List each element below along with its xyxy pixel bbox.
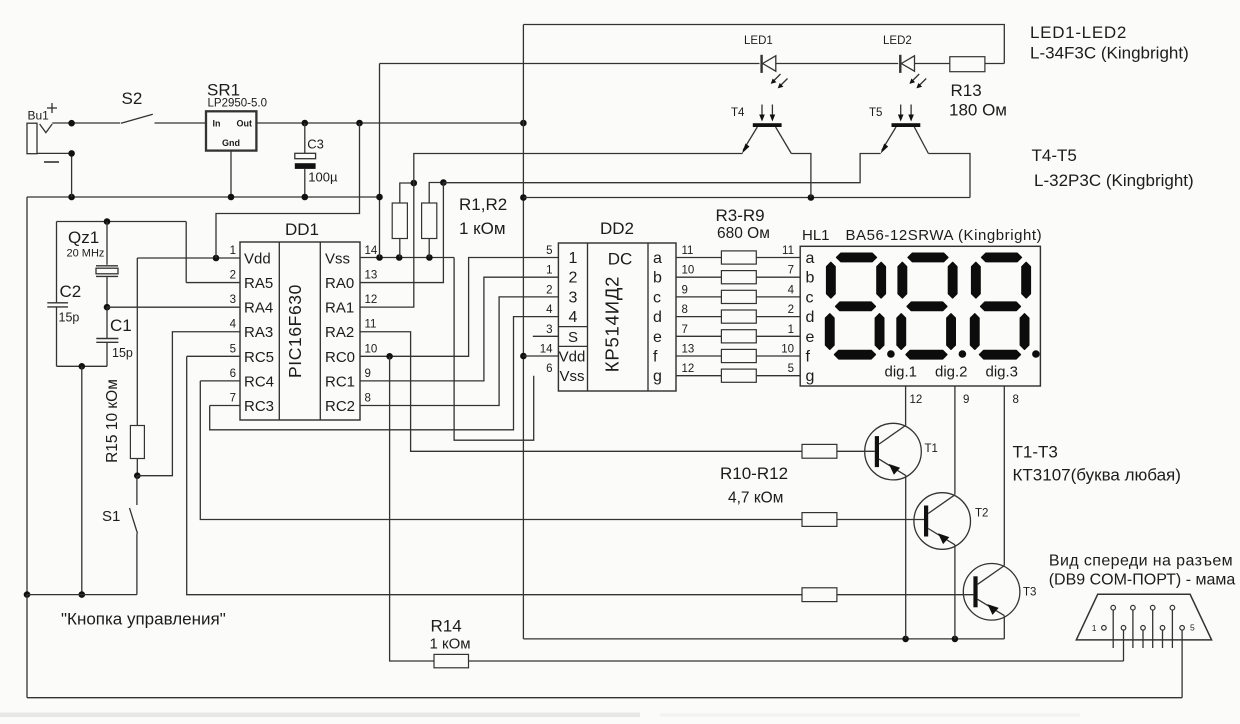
svg-text:Qz1: Qz1 <box>68 228 99 247</box>
wire RC3 to DD2 pin4 <box>210 317 559 430</box>
svg-text:13: 13 <box>365 270 378 282</box>
svg-text:R1,R2: R1,R2 <box>459 195 507 214</box>
svg-text:g: g <box>806 368 815 385</box>
wire top +5V line <box>523 25 1004 64</box>
svg-text:КР514ИД2: КР514ИД2 <box>602 276 623 373</box>
wire S1 ground line <box>27 594 137 596</box>
svg-text:dig.2: dig.2 <box>935 364 968 381</box>
svg-text:Вид спереди на разъем: Вид спереди на разъем <box>1049 553 1233 570</box>
svg-text:5: 5 <box>1190 623 1195 633</box>
resistors R3-R9 segment resistors <box>676 245 800 382</box>
label T4-T5 type <box>1032 146 1194 190</box>
svg-text:DD1: DD1 <box>285 220 319 239</box>
capacitor C3 100u <box>295 123 338 197</box>
svg-text:14: 14 <box>540 344 553 356</box>
svg-text:d: d <box>653 309 662 326</box>
svg-text:R14: R14 <box>431 617 462 636</box>
svg-text:LED2: LED2 <box>883 35 912 47</box>
diode LED1 <box>744 35 788 88</box>
diode LED2 <box>883 35 926 88</box>
wire DD2 Vdd stub <box>523 355 558 357</box>
wire HL1 dig.1 cathode <box>906 386 923 425</box>
label LED1-LED2 type <box>1030 23 1189 63</box>
wire RA0 to T5 emitter <box>360 154 881 283</box>
svg-text:c: c <box>653 289 661 306</box>
label R1,R2 value <box>459 195 507 238</box>
svg-text:100µ: 100µ <box>308 170 338 185</box>
wire T4 T5 collector rail <box>523 197 970 199</box>
junction dot C3 top <box>302 120 309 127</box>
svg-text:S1: S1 <box>102 508 120 525</box>
svg-text:S: S <box>568 329 578 346</box>
wire RA2 to R10 <box>360 332 802 452</box>
svg-text:"Кнопка управления": "Кнопка управления" <box>61 610 226 629</box>
svg-text:R3-R9: R3-R9 <box>716 206 765 225</box>
junction dot +5V DD2 Vdd <box>520 353 527 360</box>
connector Bu1 (power jack) <box>27 103 59 162</box>
svg-text:11: 11 <box>682 245 694 257</box>
svg-text:RC5: RC5 <box>244 349 274 366</box>
svg-text:11: 11 <box>365 319 377 331</box>
wire SR1 Gnd to ground rail <box>230 151 232 197</box>
wire RA4 line (crystal to pin3) <box>107 306 240 308</box>
wire RC5 to R12 <box>187 356 802 594</box>
svg-text:C1: C1 <box>110 316 132 335</box>
resistor R12 <box>802 588 973 602</box>
digit 1 segments <box>826 253 886 358</box>
svg-text:9: 9 <box>365 368 371 380</box>
svg-text:3: 3 <box>230 294 236 306</box>
crystal Qz1 <box>67 222 119 308</box>
wire crystal top net <box>57 222 187 303</box>
svg-text:20 MHz: 20 MHz <box>67 248 105 260</box>
svg-text:C2: C2 <box>60 282 82 301</box>
wire HL1 dig.3 cathode <box>1004 386 1019 566</box>
svg-text:Vss: Vss <box>559 368 584 385</box>
svg-text:RA4: RA4 <box>244 300 273 317</box>
svg-text:LED1: LED1 <box>744 35 773 47</box>
svg-text:T1-T3: T1-T3 <box>1013 443 1058 462</box>
svg-text:1: 1 <box>230 245 236 257</box>
junction dot +5V vertical <box>520 120 527 127</box>
svg-text:a: a <box>653 250 662 267</box>
svg-text:f: f <box>806 349 811 366</box>
svg-text:R13: R13 <box>951 81 982 100</box>
label button caption <box>61 610 226 629</box>
wire T4 collector <box>791 154 811 198</box>
wire T2 emitter down <box>954 545 956 639</box>
label R13 value <box>949 81 1007 120</box>
svg-text:e: e <box>653 329 662 346</box>
resistor R15 10k <box>104 258 144 476</box>
svg-text:3: 3 <box>569 289 578 306</box>
svg-text:T3: T3 <box>1023 587 1036 599</box>
capacitor C2 15p <box>47 282 81 366</box>
resistor R14 1k <box>434 654 1124 667</box>
junction dot Bu1 minus vertical on rail <box>68 194 75 201</box>
svg-text:LP2950-5.0: LP2950-5.0 <box>208 98 267 110</box>
wire S2 to SR1 In <box>155 122 207 124</box>
resistor R10 <box>802 444 875 458</box>
phototransistor T4 <box>731 105 791 154</box>
wire Vss pin14 line <box>360 257 454 259</box>
svg-text:8: 8 <box>682 304 688 316</box>
svg-text:9: 9 <box>963 394 969 406</box>
transistor T3 KT3107 <box>963 564 1036 621</box>
label R3-R9 value <box>716 206 770 242</box>
svg-text:L-32P3C (Kingbright): L-32P3C (Kingbright) <box>1034 171 1194 190</box>
svg-text:d: d <box>806 309 815 326</box>
svg-text:6: 6 <box>230 368 236 380</box>
wire RC3 stub <box>210 404 240 406</box>
label DB9 caption <box>1049 553 1236 589</box>
junction dot on plus wire <box>68 120 75 127</box>
junction dot T4 collector <box>808 194 815 201</box>
junction dot +5V collector rail <box>520 194 527 201</box>
junction dot crystal top <box>104 218 111 225</box>
svg-text:T4-T5: T4-T5 <box>1032 146 1077 165</box>
svg-text:RC4: RC4 <box>244 373 274 390</box>
wire bottom ground line to DB9 <box>27 697 1182 699</box>
label R10-R12 value <box>720 464 788 507</box>
IC DD2 KR514ID2 <box>540 219 695 391</box>
svg-text:RC3: RC3 <box>244 398 274 415</box>
wire Vss link to DD2 Vss <box>454 258 534 441</box>
wire RC4 stub <box>200 380 240 382</box>
wire RC0 to R14 feeder <box>390 356 434 661</box>
svg-text:RA3: RA3 <box>244 324 273 341</box>
wire +5V to transistor emitter rail <box>523 638 1004 640</box>
wire RA5 stub <box>186 282 240 284</box>
phototransistor T5 <box>869 105 928 154</box>
resistor R13 180 <box>950 57 1005 72</box>
wire T3 emitter down <box>1003 616 1005 639</box>
svg-text:R10-R12: R10-R12 <box>720 464 788 483</box>
resistor R11 <box>802 513 924 527</box>
junction dot RC0-R14 <box>386 353 393 360</box>
svg-text:4: 4 <box>546 304 553 316</box>
svg-text:2: 2 <box>546 284 552 296</box>
wire T1 emitter down <box>905 475 907 639</box>
svg-text:4: 4 <box>788 284 795 296</box>
svg-text:12: 12 <box>682 363 695 375</box>
wire Vdd riser to +5V <box>216 123 360 258</box>
resistor R1 1k <box>392 183 414 258</box>
wire ground vertical to LED line <box>379 64 381 258</box>
junction dot caps ground <box>79 363 86 370</box>
svg-text:1 кОм: 1 кОм <box>459 219 506 238</box>
junction dot Bu1 minus <box>68 150 75 157</box>
svg-text:RC2: RC2 <box>325 398 355 415</box>
svg-text:12: 12 <box>365 294 378 306</box>
junction dot caps at S1 line <box>79 591 86 598</box>
wire SR1 Out to +5V node <box>256 122 523 124</box>
digit 2 segments <box>897 253 957 358</box>
wire RC4 to R11 <box>200 381 802 520</box>
transistor T1 KT3107 <box>865 423 938 480</box>
svg-text:T5: T5 <box>869 107 882 119</box>
svg-text:8: 8 <box>1013 394 1019 406</box>
svg-text:12: 12 <box>910 394 923 406</box>
svg-text:6: 6 <box>546 363 552 375</box>
wire ground rail down left side <box>26 197 28 595</box>
svg-text:Vss: Vss <box>325 251 350 268</box>
svg-text:КТ3107(буква любая): КТ3107(буква любая) <box>1013 466 1181 485</box>
digit 3 segments <box>971 253 1031 358</box>
svg-text:T2: T2 <box>975 508 988 520</box>
wire Bu1 plus to S2 <box>52 122 120 124</box>
wire RC0 to DD2 pin5 <box>360 258 558 357</box>
svg-text:1: 1 <box>788 324 794 336</box>
svg-text:f: f <box>653 349 658 366</box>
svg-text:11: 11 <box>782 245 794 257</box>
svg-text:7: 7 <box>788 265 794 277</box>
svg-text:a: a <box>806 250 815 267</box>
svg-text:PIC16F630: PIC16F630 <box>285 284 305 378</box>
decimal point 3 <box>1032 350 1040 358</box>
junction dot pin1 <box>213 255 220 262</box>
svg-text:RA5: RA5 <box>244 275 273 292</box>
svg-text:10: 10 <box>365 343 378 355</box>
wire T1 collector up <box>905 424 907 427</box>
junction dot R2 top <box>440 179 447 186</box>
svg-text:1: 1 <box>546 265 552 277</box>
svg-text:10: 10 <box>682 265 695 277</box>
svg-text:2: 2 <box>569 270 578 287</box>
wire R15 to RA3 <box>137 332 240 476</box>
decimal point 2 <box>959 350 967 358</box>
wire LED2 to R13 <box>914 63 950 65</box>
ground rail <box>27 196 380 198</box>
svg-text:10: 10 <box>781 344 794 356</box>
wire Vdd pin1 line <box>137 257 240 259</box>
svg-text:5: 5 <box>230 343 236 355</box>
svg-text:1 кОм: 1 кОм <box>430 636 471 653</box>
svg-text:7: 7 <box>682 324 688 336</box>
svg-text:RA2: RA2 <box>325 324 354 341</box>
svg-text:2: 2 <box>788 304 794 316</box>
svg-text:3: 3 <box>546 324 552 336</box>
wire ground to bottom line <box>26 595 28 698</box>
junction dot R2 bottom <box>426 254 433 261</box>
label R14 value <box>430 617 471 653</box>
svg-text:4,7 кОм: 4,7 кОм <box>728 490 783 507</box>
svg-text:RA1: RA1 <box>325 300 354 317</box>
transistor T2 KT3107 <box>914 493 989 550</box>
junction dot Vss-ground <box>376 254 383 261</box>
svg-text:S2: S2 <box>122 89 143 108</box>
junction dot T1 emitter <box>902 636 909 643</box>
capacitor C1 15p <box>96 307 133 366</box>
svg-text:14: 14 <box>365 245 378 257</box>
junction dot R15 bottom <box>134 472 141 479</box>
scan artifact band at bottom <box>0 713 1080 718</box>
junction dot ground rail crossing <box>376 194 383 201</box>
svg-text:T4: T4 <box>731 107 745 119</box>
svg-text:180 Ом: 180 Ом <box>949 101 1007 120</box>
svg-text:13: 13 <box>682 344 695 356</box>
junction dot SR1 gnd on rail <box>228 194 235 201</box>
svg-text:9: 9 <box>682 284 688 296</box>
svg-text:RA0: RA0 <box>325 275 354 292</box>
junction dot ground at S1 line <box>24 591 31 598</box>
wire LED1 to LED2 <box>775 63 898 65</box>
svg-text:b: b <box>806 270 815 287</box>
junction dot DD1 Vdd riser <box>356 120 363 127</box>
switch S1 <box>102 476 138 595</box>
svg-text:b: b <box>653 270 662 287</box>
wire C2-C1 bottom line <box>57 365 108 367</box>
svg-text:L-34F3C (Kingbright): L-34F3C (Kingbright) <box>1030 44 1189 63</box>
svg-text:680 Ом: 680 Ом <box>717 225 770 242</box>
junction dot T2 emitter <box>952 636 959 643</box>
wire RC1 to DD2 pin1 <box>360 277 558 381</box>
svg-text:T1: T1 <box>925 443 938 455</box>
wire RC2 to DD2 pin2 <box>360 297 558 406</box>
svg-text:RC1: RC1 <box>325 373 355 390</box>
svg-text:5: 5 <box>546 245 552 257</box>
svg-text:g: g <box>653 368 662 385</box>
svg-text:LED1-LED2: LED1-LED2 <box>1030 23 1127 42</box>
wire caps ground drop <box>81 366 83 594</box>
svg-text:R15 10 кОм: R15 10 кОм <box>104 379 121 463</box>
wire RC5 stub <box>187 355 240 357</box>
wire RA1 to T4 emitter <box>360 154 743 308</box>
svg-text:1: 1 <box>1092 623 1097 633</box>
svg-text:Vdd: Vdd <box>559 349 586 366</box>
resistor R2 1k <box>422 183 444 258</box>
display HL1 box <box>800 227 1042 386</box>
svg-text:4: 4 <box>569 309 578 326</box>
junction dot R1 bottom <box>396 254 403 261</box>
svg-text:15p: 15p <box>112 346 133 360</box>
svg-text:(DB9 COM-ПОРТ) - мама: (DB9 COM-ПОРТ) - мама <box>1049 572 1236 589</box>
decimal point 1 <box>887 350 895 358</box>
junction dot C3 on rail <box>302 194 309 201</box>
svg-text:1: 1 <box>569 250 578 267</box>
wire DD2 S stub <box>533 335 559 337</box>
switch S2 <box>121 89 153 123</box>
svg-text:BA56-12SRWA (Kingbright): BA56-12SRWA (Kingbright) <box>846 227 1043 244</box>
svg-text:In: In <box>213 119 221 129</box>
wire +5V vertical <box>522 25 524 639</box>
svg-text:DC: DC <box>608 250 633 269</box>
svg-text:HL1: HL1 <box>802 227 830 244</box>
svg-text:dig.3: dig.3 <box>986 364 1019 381</box>
svg-text:Out: Out <box>237 119 253 129</box>
wire HL1 dig.2 cathode <box>955 386 970 495</box>
svg-text:DD2: DD2 <box>600 219 634 238</box>
op-amp, IC DD1 PIC16F630 <box>230 220 378 420</box>
svg-text:4: 4 <box>230 319 237 331</box>
svg-text:RC0: RC0 <box>325 349 355 366</box>
svg-text:2: 2 <box>230 270 236 282</box>
regulator SR1 <box>206 81 267 151</box>
svg-text:Bu1: Bu1 <box>28 109 50 123</box>
connector DB9 female <box>1076 594 1211 697</box>
svg-text:dig.1: dig.1 <box>885 364 918 381</box>
junction dot crystal bottom / C1 top <box>104 304 111 311</box>
svg-text:e: e <box>806 329 815 346</box>
svg-text:15p: 15p <box>59 311 80 325</box>
svg-text:c: c <box>806 289 814 306</box>
svg-text:8: 8 <box>365 392 371 404</box>
wire LED cathode line <box>380 63 760 65</box>
junction dot R1 top <box>411 180 418 187</box>
svg-text:Vdd: Vdd <box>244 251 271 268</box>
svg-text:5: 5 <box>788 363 794 375</box>
svg-text:C3: C3 <box>307 136 324 151</box>
svg-text:Gnd: Gnd <box>222 138 240 148</box>
wire Bu1 minus <box>37 153 72 197</box>
wire T5 collector <box>928 154 970 198</box>
svg-text:7: 7 <box>230 392 236 404</box>
label T1-T3 type <box>1013 443 1181 485</box>
